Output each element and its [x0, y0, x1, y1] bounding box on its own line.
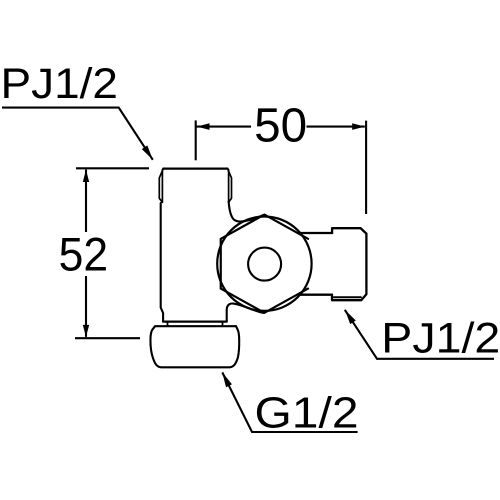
svg-text:G1/2: G1/2	[255, 390, 359, 438]
svg-text:50: 50	[254, 98, 307, 152]
svg-text:PJ1/2: PJ1/2	[381, 316, 500, 363]
svg-text:PJ1/2: PJ1/2	[1, 61, 118, 108]
svg-text:52: 52	[59, 229, 109, 282]
